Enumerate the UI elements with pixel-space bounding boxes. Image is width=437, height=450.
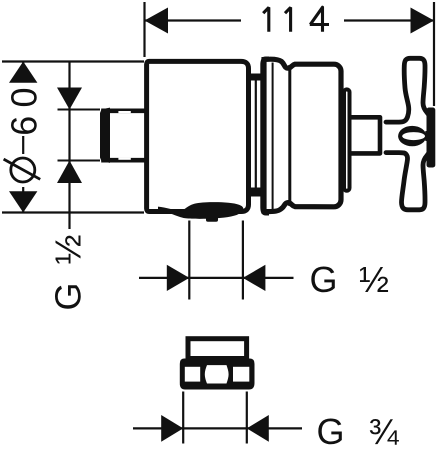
- dimension G3/4: right extension line: [246, 392, 248, 444]
- svg-text:G: G: [310, 259, 338, 300]
- hose fitting nut right facet: [233, 367, 249, 382]
- handle front spoke end (oval) inner: [402, 132, 425, 140]
- svg-text:6: 6: [4, 116, 45, 136]
- handle front spoke end (oval) outer: [398, 126, 426, 146]
- dimension outlet G1/2: right extension line: [242, 221, 244, 300]
- svg-text:½: ½: [359, 259, 389, 300]
- dimension G3/4: dimension line: [133, 427, 302, 429]
- cross handle outline: [386, 58, 431, 210]
- dimension G1/2 left: vertical leader line: [68, 62, 70, 230]
- dimension 114: right arrowhead: [411, 8, 435, 34]
- dimension G3/4: right-pointing arrowhead: [161, 415, 183, 442]
- hose fitting nut (black): [180, 359, 255, 390]
- wall connector stub G1/2: [104, 111, 148, 160]
- svg-text:0: 0: [4, 87, 45, 107]
- dimension 114: right extension line: [433, 2, 435, 106]
- dimension 114: dimension line left segment: [145, 19, 242, 21]
- outlet nipple tab: [206, 218, 218, 222]
- hose fitting nut left facet: [185, 367, 200, 382]
- dimension 114: left extension line: [143, 2, 145, 57]
- dimension d60: bottom arrowhead: [9, 191, 37, 212]
- dimension outlet G1/2: dimension line: [139, 277, 294, 279]
- dimension d60: vertical dimension line segments: [22, 62, 24, 80]
- valve stem: [352, 117, 381, 153]
- flange/cylinder boundary line: [288, 65, 291, 206]
- dimension 114: dimension line right segment: [344, 19, 434, 21]
- wall connector thread relief notch bottom: [118, 158, 130, 160]
- dimension d60: top extension line: [2, 60, 144, 62]
- dimension 114: left arrowhead: [145, 8, 169, 34]
- wall connector thread end band: [100, 108, 110, 163]
- barrel line in gap: [255, 80, 257, 188]
- valve housing cylinder with flange: [264, 59, 341, 211]
- dimension d60: diameter symbol slash: [4, 159, 41, 179]
- hose fitting top part: [188, 339, 247, 359]
- dimension d60: top arrowhead: [9, 62, 37, 83]
- outlet blob under escutcheon: [158, 202, 243, 219]
- escutcheon sleeve: [147, 61, 249, 211]
- dimension d60: diameter symbol circle: [11, 158, 35, 182]
- wall connector thread relief notch: [118, 111, 130, 113]
- dimension G1/2 left: down arrowhead: [57, 88, 82, 110]
- flange crease line: [272, 63, 274, 210]
- hose fitting nut center facet: [205, 365, 229, 383]
- dimension G1/2 left: top edge extension line: [58, 109, 101, 111]
- svg-text:G: G: [48, 282, 89, 310]
- svg-text:¾: ¾: [369, 411, 400, 450]
- flange lip ring: [263, 59, 269, 213]
- dimension outlet G1/2: right-pointing arrowhead: [167, 265, 190, 291]
- svg-text:½: ½: [48, 234, 89, 264]
- oval to rear spoke neck: [425, 131, 428, 141]
- dimension G1/2 left: bottom edge extension line: [58, 160, 101, 162]
- dimension d60: bottom extension line: [2, 211, 144, 213]
- bonnet capsule: [344, 89, 350, 190]
- joint bridge top: [246, 74, 263, 81]
- dimension G3/4: left-pointing arrowhead: [247, 415, 269, 442]
- dimension G3/4: left extension line: [182, 392, 184, 444]
- handle rear spoke tip (black bar): [427, 108, 436, 168]
- dimension outlet G1/2: left-pointing arrowhead: [243, 265, 266, 291]
- dimension G1/2 left: up arrowhead: [57, 161, 82, 184]
- dimension outlet G1/2: left extension line: [188, 221, 190, 300]
- joint bridge bottom: [246, 188, 263, 197]
- dimension 114: text label: [263, 7, 329, 32]
- svg-text:G: G: [317, 411, 345, 450]
